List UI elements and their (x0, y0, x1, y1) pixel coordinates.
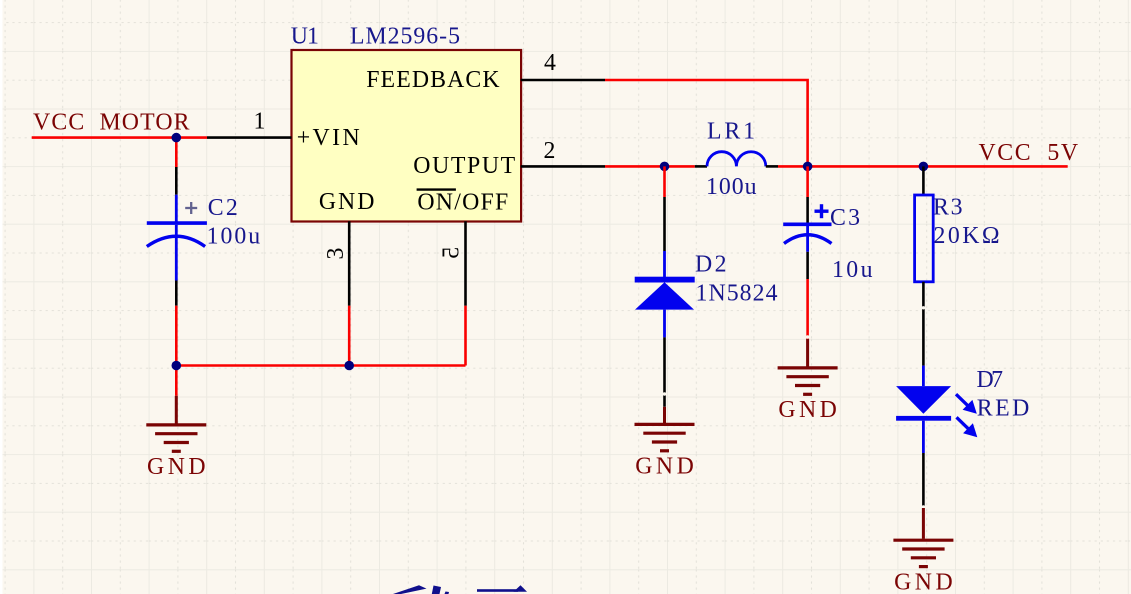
svg-text:100u: 100u (207, 223, 261, 249)
svg-text:D7: D7 (977, 367, 1004, 393)
svg-text:LR1: LR1 (707, 119, 755, 145)
wire red stub to C2 (175, 138, 178, 167)
svg-text:1: 1 (254, 109, 266, 135)
wire node to D2 (663, 166, 666, 197)
svg-text:OUTPUT: OUTPUT (413, 153, 515, 179)
wire inductor to VCC_5V (778, 165, 1068, 168)
svg-text:FEEDBACK: FEEDBACK (366, 67, 499, 93)
wire output pin2 to inductor (605, 165, 695, 168)
svg-text:U1: U1 (291, 24, 319, 50)
junction C3 node (803, 162, 813, 172)
wire R3 to D7 (922, 282, 925, 366)
svg-text:GND: GND (319, 189, 375, 215)
svg-text:2: 2 (544, 138, 556, 164)
junction at VCC_MOTOR / C2 (172, 133, 182, 143)
resistor R3 (915, 195, 934, 282)
U1 designator text (291, 24, 460, 50)
pin 5 wire (U1 ON/OFF) (464, 221, 467, 305)
wire D7 to GND (922, 453, 925, 509)
junction bus pin3 (344, 361, 354, 371)
svg-text:100u: 100u (706, 174, 757, 200)
svg-text:20KΩ: 20KΩ (934, 223, 1000, 249)
pin 3 wire (U1 GND) (348, 221, 351, 305)
pin 2 wire (U1 OUTPUT) (521, 165, 605, 168)
ground bus wire (176, 364, 465, 367)
wire node to C3 (806, 166, 809, 197)
wire node to R3 (922, 166, 925, 195)
svg-text:GND: GND (894, 569, 953, 594)
svg-text:R3: R3 (933, 195, 963, 221)
inductor LR1 (695, 152, 778, 167)
U1 pin name ON/OFF with overline (417, 190, 509, 216)
svg-text:RED: RED (977, 396, 1030, 422)
pin 4 wire (U1 FEEDBACK) (521, 79, 605, 82)
ground GND 1 (left) (146, 396, 206, 480)
power port VCC_MOTOR (32, 110, 207, 138)
ground GND 4 (under D7) (893, 508, 953, 594)
svg-text:VCC MOTOR: VCC MOTOR (33, 110, 190, 136)
svg-text:VCC 5V: VCC 5V (979, 140, 1079, 166)
svg-text:C3: C3 (830, 205, 860, 231)
wire bus to GND symbol (175, 366, 178, 396)
svg-text:3: 3 (323, 248, 349, 260)
svg-text:4: 4 (544, 50, 556, 76)
LED D7 (896, 366, 977, 453)
svg-text:GND: GND (778, 397, 837, 423)
svg-text:GND: GND (635, 454, 694, 480)
op-amp U1 body LM2596-5 (292, 50, 522, 222)
wire pin5 to ground bus (464, 306, 467, 366)
power port VCC_5V (979, 140, 1079, 166)
svg-text:+VIN: +VIN (297, 125, 360, 151)
wire pin3 to ground bus (348, 306, 351, 366)
junction D2 node (660, 162, 670, 172)
wire C3 to GND (806, 279, 809, 339)
svg-text:LM2596-5: LM2596-5 (350, 24, 460, 50)
junction R3 node (919, 162, 929, 172)
svg-text:D2: D2 (695, 252, 727, 278)
svg-text:ON/OFF: ON/OFF (417, 190, 508, 216)
svg-text:1N5824: 1N5824 (696, 281, 778, 307)
svg-text:10u: 10u (832, 257, 873, 283)
junction bus left (172, 361, 182, 371)
ground GND 2 (under D2) (635, 407, 695, 480)
diode D2 (635, 197, 695, 407)
capacitor C2 (147, 167, 207, 306)
wire C2 to ground bus (175, 306, 178, 366)
svg-text:GND: GND (147, 454, 206, 480)
capacitor C3 (783, 197, 831, 279)
wire feedback pin4 to node (605, 80, 808, 166)
pin 1 wire (U1 +VIN) (207, 136, 292, 139)
svg-text:5: 5 (438, 247, 464, 259)
ground GND 3 (under C3) (778, 339, 838, 423)
svg-text:C2: C2 (208, 195, 238, 221)
title text top strokes (partially visible chinese caption) (393, 585, 527, 594)
